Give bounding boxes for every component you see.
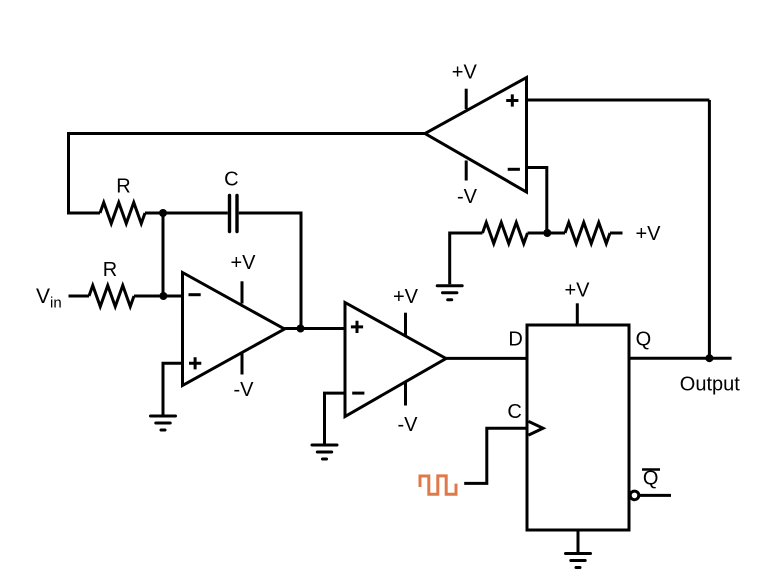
resistor R1 <box>100 203 145 224</box>
node B junction dot <box>297 325 305 333</box>
capacitor C1 <box>230 196 238 232</box>
clock square wave symbol <box>420 476 456 494</box>
wire node A vertical <box>162 213 165 296</box>
wire Qbar output <box>639 494 671 497</box>
wire R4 to +V <box>610 232 623 235</box>
wire right rail vertical <box>708 100 711 358</box>
svg-text:C: C <box>507 401 521 423</box>
ground G1 <box>151 416 176 430</box>
ground G3 <box>437 286 462 300</box>
wire U2 output to flip-flop D input <box>446 357 527 360</box>
op-amp U1 integrator <box>183 273 285 386</box>
Qbar bubble <box>630 491 639 500</box>
resistor R2 <box>89 286 134 307</box>
svg-text:+V: +V <box>635 223 661 245</box>
svg-text:C: C <box>224 169 238 191</box>
U3 -V supply tick <box>465 161 468 181</box>
Qbar overline <box>642 468 660 471</box>
resistor R4 <box>565 223 610 244</box>
U2 minus sign <box>352 392 364 395</box>
U3 minus sign <box>508 168 520 171</box>
wire divider left to ground <box>450 233 483 284</box>
U1 -V supply tick <box>241 352 244 374</box>
flip-flop U4 body <box>527 325 629 530</box>
svg-text:+V: +V <box>230 252 256 274</box>
wire U1 output to U2 noninverting input <box>285 327 346 330</box>
divider node junction dot <box>543 229 551 237</box>
U3 plus sign <box>506 94 518 106</box>
wire Q output to Output <box>629 357 732 360</box>
U3 +V supply tick <box>465 89 468 109</box>
svg-text:-V: -V <box>234 379 255 401</box>
wire R2 to op-amp U1 inverting input <box>134 295 183 298</box>
wire C1 right to node B <box>239 213 301 329</box>
wire R1 to node A <box>145 212 163 215</box>
U1 plus sign <box>189 357 201 369</box>
svg-text:+V: +V <box>452 62 478 84</box>
output node junction dot <box>705 354 713 362</box>
wire Vin lead <box>69 295 90 298</box>
svg-text:-V: -V <box>457 186 478 208</box>
svg-text:Vin: Vin <box>36 285 62 312</box>
svg-text:Output: Output <box>680 374 740 396</box>
U1 minus sign <box>189 293 201 296</box>
U4 clock edge triangle <box>529 421 544 435</box>
wire U3 noninverting input to right rail <box>527 99 710 102</box>
ground G2 <box>312 445 337 459</box>
U1 +V supply tick <box>241 281 244 303</box>
svg-text:D: D <box>508 329 522 351</box>
U2 +V supply tick <box>404 313 407 337</box>
wire U2 inverting input to ground <box>325 393 346 443</box>
wire feedback from U3 output to R1 <box>69 134 426 214</box>
U4 +V supply tick <box>576 303 579 325</box>
U2 -V supply tick <box>404 382 407 406</box>
U2 plus sign <box>351 321 363 333</box>
svg-text:R: R <box>116 176 130 198</box>
wire U3 inverting input to divider node <box>527 168 547 234</box>
svg-text:-V: -V <box>398 414 419 436</box>
node Vin junction dot <box>159 292 167 300</box>
svg-text:+V: +V <box>564 280 590 302</box>
resistor R3 <box>483 223 528 244</box>
wire U1 noninverting input to ground <box>163 363 183 414</box>
capacitor C1 wire left <box>163 212 228 215</box>
svg-text:Q: Q <box>636 329 652 351</box>
op-amp U3 comparator top <box>425 78 527 193</box>
wire flip-flop to ground <box>577 530 580 552</box>
ground G4 <box>566 554 591 568</box>
wire R3 to R4 <box>528 232 566 235</box>
node A junction dot <box>159 209 167 217</box>
svg-text:R: R <box>103 259 117 281</box>
wire clock input <box>464 428 527 483</box>
op-amp U2 comparator <box>345 303 446 417</box>
svg-text:+V: +V <box>393 286 419 308</box>
svg-text:Q: Q <box>643 468 659 490</box>
